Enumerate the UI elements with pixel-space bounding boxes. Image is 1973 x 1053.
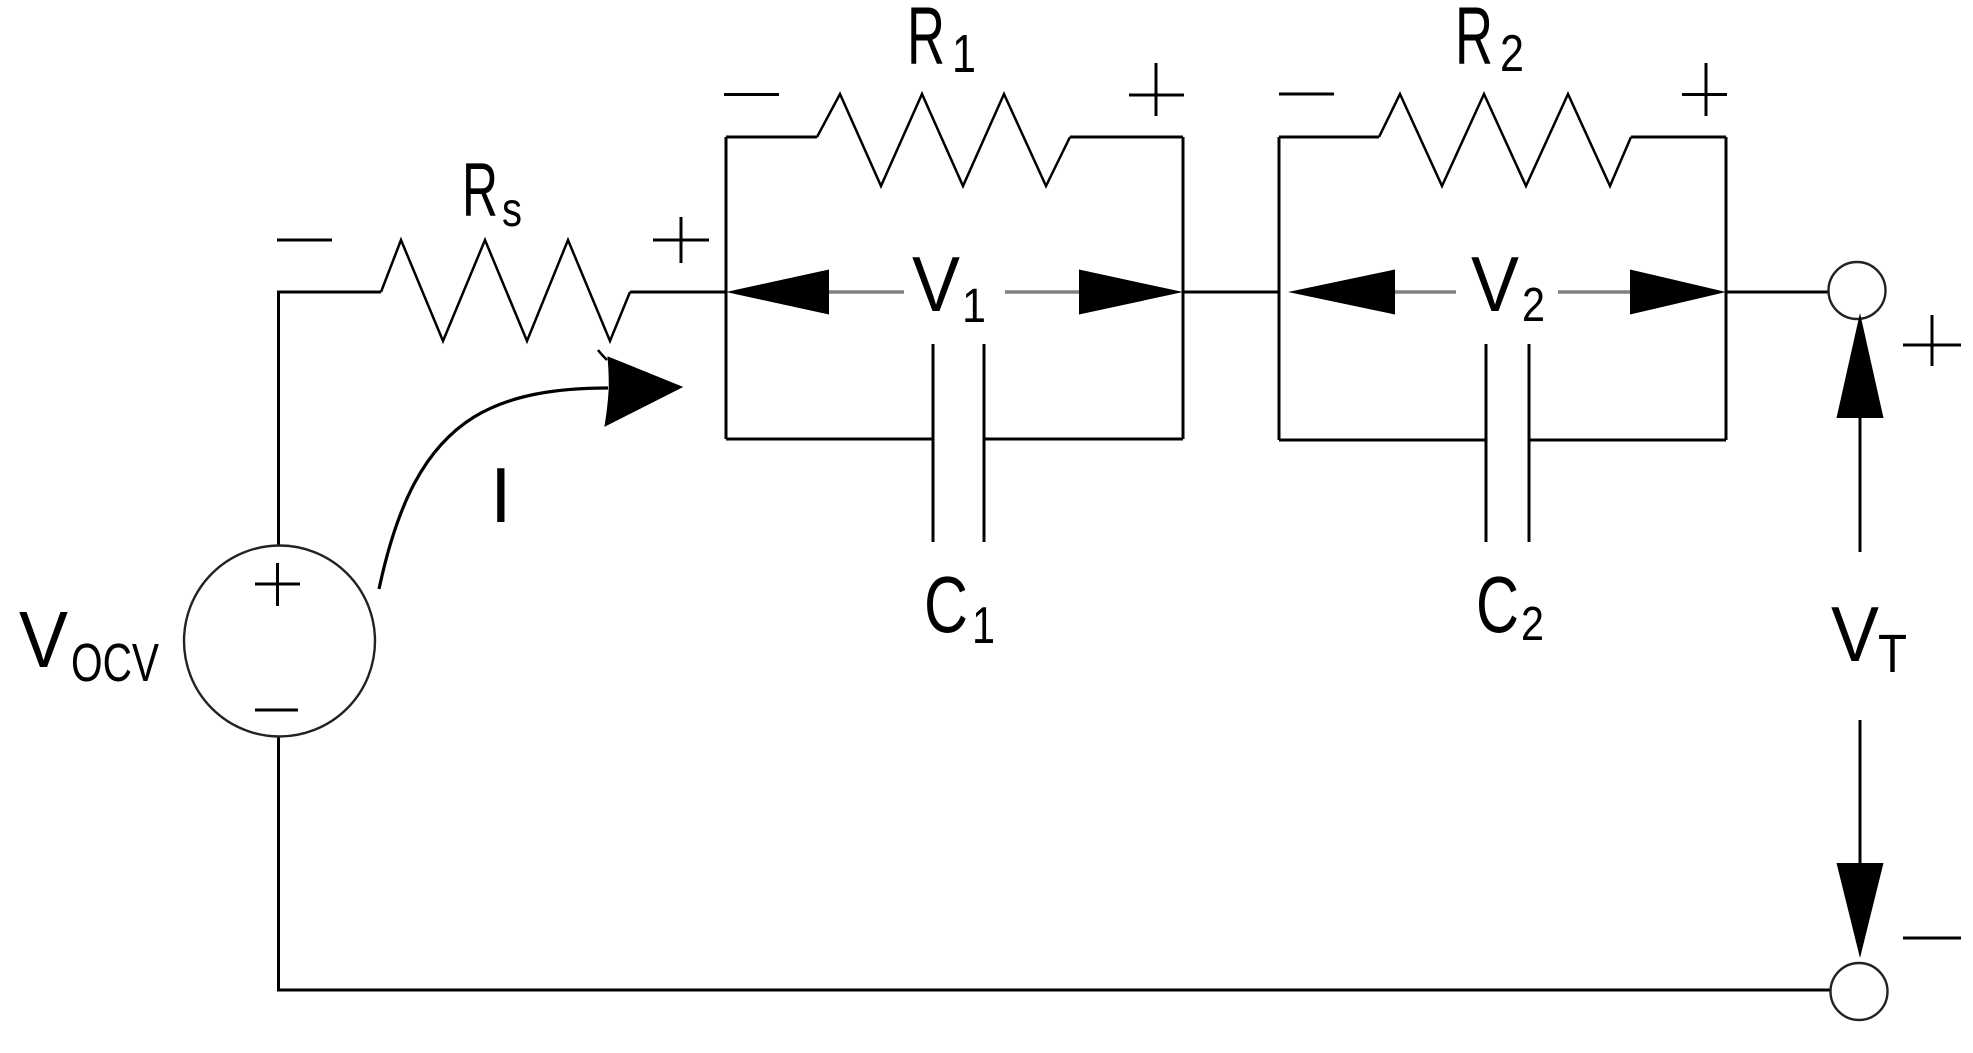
V1 arrow right head (1079, 270, 1183, 315)
polarity + near positive terminal (1903, 315, 1961, 366)
V2 arrow right head (1630, 270, 1726, 315)
V2 arrow right gray shaft (1558, 290, 1630, 293)
R1 parallel box right edge (1182, 137, 1185, 439)
polarity - left of R1 (724, 93, 779, 96)
polarity + right of R1 (1129, 63, 1184, 116)
negative terminal node circle (1831, 963, 1888, 1020)
polarity - left of Rs (277, 239, 332, 242)
svg-text:1: 1 (972, 597, 995, 655)
wire: left horizontal from source branch to Rs (277, 291, 381, 294)
polarity + right of R2 (1682, 63, 1727, 116)
svg-text:V: V (912, 240, 960, 328)
R1 box top edge segments (726, 136, 1183, 139)
polarity - left of R2 (1279, 93, 1334, 96)
polarity - near negative terminal (1903, 937, 1961, 940)
svg-text:R: R (462, 148, 498, 233)
wire: R2 box to positive terminal (1726, 291, 1829, 294)
positive terminal node circle (1829, 262, 1886, 319)
R2 parallel box left edge (1278, 137, 1281, 440)
wire: left vertical lower (source bottom to bottom rail) (277, 737, 280, 992)
V2 arrow left gray shaft (1395, 290, 1456, 293)
svg-text:R: R (1455, 0, 1493, 82)
VT upper shaft (1859, 418, 1862, 552)
V1 arrow left gray shaft (829, 290, 904, 293)
svg-text:2: 2 (1521, 598, 1544, 651)
R1 parallel box left edge (725, 137, 728, 439)
svg-text:C: C (1476, 560, 1519, 649)
V1 arrow right gray shaft (1005, 290, 1079, 293)
V2 arrow left head (1288, 270, 1395, 315)
wire: Rs to R1 box (630, 291, 726, 294)
capacitor C2 plates (1486, 344, 1529, 542)
svg-text:V: V (1831, 590, 1879, 678)
polarity - inside source (255, 709, 298, 712)
svg-text:1: 1 (952, 24, 976, 84)
svg-text:C: C (924, 560, 968, 649)
VT down arrow head (1837, 863, 1884, 958)
resistor Rs zigzag (381, 240, 630, 341)
VT lower shaft (1859, 720, 1862, 863)
svg-text:2: 2 (1500, 25, 1524, 83)
svg-text:1: 1 (962, 280, 986, 333)
R2 parallel box right edge (1725, 137, 1728, 440)
resistor R2 zigzag (1379, 94, 1631, 186)
svg-text:R: R (907, 0, 945, 82)
svg-text:s: s (502, 184, 522, 237)
current arrow I head (605, 357, 682, 426)
R2 box bottom edge segments (1279, 439, 1726, 442)
svg-text:I: I (490, 451, 512, 539)
current arrow I (curved tail) (379, 388, 608, 589)
polarity + right of Rs (node A) (653, 217, 709, 263)
polarity + inside source (255, 563, 300, 606)
capacitor C1 plates (933, 344, 984, 542)
V1 arrow left head (726, 270, 829, 315)
svg-text:V: V (1471, 240, 1519, 328)
svg-text:2: 2 (1522, 279, 1545, 332)
R2 box top edge segments (1279, 136, 1726, 139)
wire: bottom rail (277, 989, 1831, 992)
svg-text:T: T (1878, 624, 1907, 684)
wire: left vertical upper (node to source top) (277, 291, 280, 547)
resistor R1 zigzag (817, 94, 1070, 186)
svg-text:V: V (19, 595, 69, 684)
R1 box bottom edge segments (726, 438, 1183, 441)
VT up arrow head (1837, 313, 1884, 418)
wire: between R1 and R2 boxes (1183, 291, 1279, 294)
svg-text:OCV: OCV (71, 633, 159, 693)
voltage source V_OCV circle (184, 546, 375, 737)
